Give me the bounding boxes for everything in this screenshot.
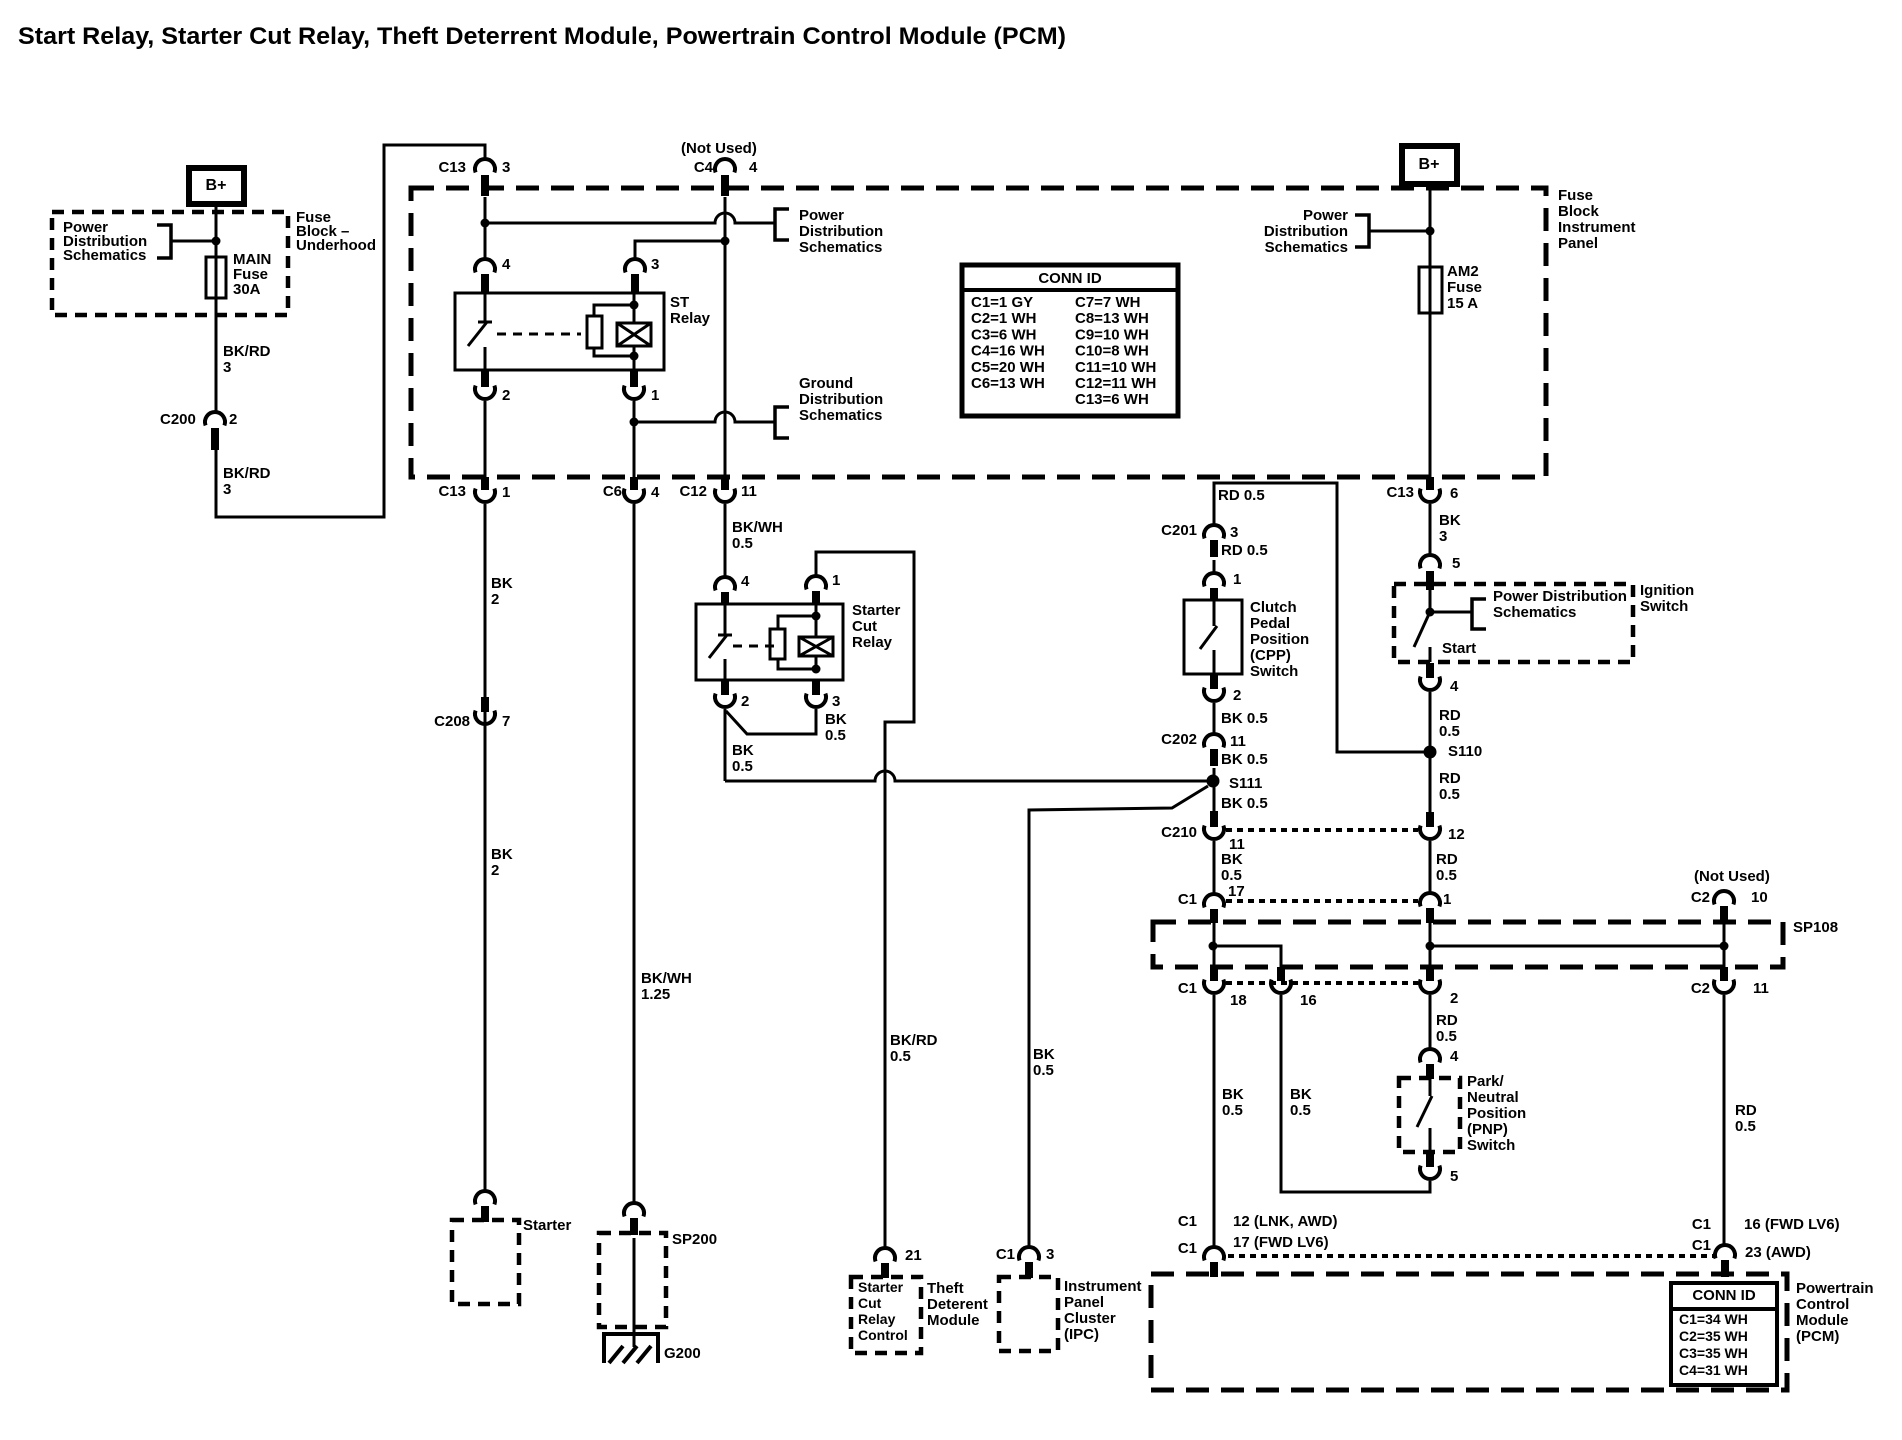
svg-text:2: 2	[229, 411, 237, 428]
svg-text:3: 3	[832, 693, 840, 710]
svg-text:0.5: 0.5	[825, 727, 846, 744]
svg-text:11: 11	[741, 483, 757, 500]
label BK 2 (upper)	[491, 575, 513, 608]
svg-text:11: 11	[1230, 733, 1246, 750]
wire C200 to C13 pin 3 (down, right, up, right)	[216, 145, 485, 517]
connector ignition pin 4	[1420, 663, 1459, 695]
svg-text:0.5: 0.5	[1436, 867, 1457, 884]
svg-text:Instrument: Instrument	[1558, 219, 1636, 236]
starter cut relay linkage dashed	[733, 645, 776, 648]
ground G200	[604, 1334, 701, 1363]
svg-text:Starter: Starter	[523, 1217, 572, 1234]
svg-text:0.5: 0.5	[890, 1048, 911, 1065]
svg-text:Schematics: Schematics	[799, 239, 882, 256]
junction SP108 right	[1720, 942, 1729, 951]
wire branch to ST relay pin 3	[635, 241, 725, 259]
label BK 0.5 (pin 2)	[732, 742, 754, 775]
svg-text:Panel: Panel	[1558, 235, 1598, 252]
svg-text:C12=11 WH: C12=11 WH	[1075, 375, 1156, 392]
wire RD 0.5 C2-11 to PCM	[1723, 995, 1726, 1245]
svg-text:5: 5	[1452, 555, 1460, 572]
wire relay pin 1 to theft deterrent module	[816, 552, 914, 1248]
wire B+ to fuse	[215, 204, 218, 258]
svg-text:4: 4	[502, 256, 511, 273]
connector PNP pin 4	[1420, 1048, 1459, 1079]
svg-text:0.5: 0.5	[1436, 1028, 1457, 1045]
svg-text:C13: C13	[438, 159, 466, 176]
wire BK/WH 1.25 C6-4 to SP200	[633, 504, 636, 1203]
label Starter Cut Relay Control (in box)	[858, 1279, 908, 1343]
svg-text:C3=6 WH: C3=6 WH	[971, 326, 1036, 343]
svg-text:RD: RD	[1436, 1012, 1458, 1029]
svg-text:3: 3	[1046, 1246, 1054, 1263]
svg-text:4: 4	[749, 159, 758, 176]
svg-text:G200: G200	[664, 1345, 701, 1362]
svg-text:C5=20 WH: C5=20 WH	[971, 359, 1045, 376]
label BK 3	[1439, 512, 1461, 545]
svg-text:Start: Start	[1442, 640, 1476, 657]
svg-text:C4: C4	[694, 159, 714, 176]
svg-text:21: 21	[905, 1247, 922, 1264]
ST relay box	[455, 293, 664, 370]
svg-text:Clutch: Clutch	[1250, 599, 1297, 616]
svg-text:BK 0.5: BK 0.5	[1221, 795, 1268, 812]
label Fuse Block - Underhood	[296, 209, 376, 254]
connector PNP pin 5	[1420, 1153, 1458, 1185]
connector C208 pin 7	[434, 697, 510, 730]
svg-text:0.5: 0.5	[1033, 1062, 1054, 1079]
svg-text:23 (AWD): 23 (AWD)	[1745, 1244, 1811, 1261]
svg-text:C200: C200	[160, 411, 196, 428]
svg-text:Starter: Starter	[858, 1279, 904, 1295]
connector C202 pin 11	[1161, 731, 1246, 766]
label BK/RD 3 (upper)	[223, 343, 271, 376]
svg-text:0.5: 0.5	[1221, 867, 1242, 884]
fuse MAIN 30A	[206, 257, 226, 298]
svg-text:0.5: 0.5	[732, 758, 753, 775]
connector SP200 terminal	[624, 1203, 644, 1235]
svg-text:Pedal: Pedal	[1250, 615, 1290, 632]
svg-text:BK: BK	[491, 846, 513, 863]
junction SP108 left	[1209, 942, 1218, 951]
svg-text:Control: Control	[1796, 1296, 1849, 1313]
ST relay coil	[587, 293, 651, 361]
starter cut relay pin 3	[806, 681, 840, 710]
svg-text:1: 1	[832, 572, 840, 589]
fuse block underhood dashed box	[52, 212, 288, 315]
svg-text:Block: Block	[1558, 203, 1600, 220]
connector C13 pin 3 (top)	[438, 159, 510, 196]
label BK 0.5 (pin 18 wire)	[1222, 1086, 1244, 1119]
label Power Distribution Schematics (ignition)	[1493, 588, 1627, 621]
connector C201 pin 3	[1161, 522, 1238, 557]
junction on B+ feed	[212, 237, 221, 246]
svg-text:C13: C13	[438, 483, 466, 500]
svg-text:Schematics: Schematics	[1493, 604, 1576, 621]
svg-text:1: 1	[502, 484, 510, 501]
dotted connector line PCM C1	[1228, 1254, 1715, 1258]
svg-text:C6=13 WH: C6=13 WH	[971, 375, 1045, 392]
ignition switch dashed box	[1394, 584, 1633, 662]
connector pin 1 (above SP108)	[1420, 891, 1451, 923]
svg-text:BK: BK	[1290, 1086, 1312, 1103]
svg-text:C7=7 WH: C7=7 WH	[1075, 294, 1140, 311]
ST relay pin 1 (lower)	[624, 371, 659, 477]
power distribution stub (top)	[775, 209, 789, 240]
svg-text:0.5: 0.5	[1439, 723, 1460, 740]
svg-text:Instrument: Instrument	[1064, 1278, 1142, 1295]
svg-text:C1: C1	[996, 1246, 1015, 1263]
svg-text:BK: BK	[1222, 1086, 1244, 1103]
svg-text:C208: C208	[434, 713, 470, 730]
svg-text:Cut: Cut	[858, 1295, 882, 1311]
svg-text:4: 4	[651, 484, 660, 501]
svg-text:Switch: Switch	[1250, 663, 1298, 680]
label BK 0.5 (below C202)	[1221, 751, 1268, 768]
title text	[18, 23, 1066, 50]
svg-text:Power: Power	[799, 207, 844, 224]
svg-text:Relay: Relay	[852, 634, 893, 651]
svg-text:4: 4	[1450, 1048, 1459, 1065]
svg-text:BK 0.5: BK 0.5	[1221, 751, 1268, 768]
svg-text:Panel: Panel	[1064, 1294, 1104, 1311]
svg-text:(Not Used): (Not Used)	[1694, 868, 1770, 885]
fuse AM2 15A	[1419, 267, 1442, 313]
SP108 bus wire	[1430, 945, 1724, 948]
wire to power distribution stub (hops C4 wire)	[485, 213, 775, 223]
label Start	[1442, 640, 1476, 657]
svg-text:C13=6 WH: C13=6 WH	[1075, 391, 1149, 408]
wire C210 to C1 pin 17	[1213, 841, 1216, 894]
wire RD 0.5 pin2 to PNP	[1429, 995, 1432, 1049]
label SP108	[1793, 919, 1838, 936]
svg-text:11: 11	[1753, 980, 1769, 997]
svg-text:Relay: Relay	[858, 1311, 896, 1327]
svg-text:BK: BK	[825, 711, 847, 728]
wire C2-10 through SP108	[1723, 922, 1726, 967]
svg-text:2: 2	[741, 693, 749, 710]
label RD 0.5 (below S110)	[1439, 770, 1461, 803]
connector C1 pin 17	[1178, 891, 1224, 923]
svg-text:C3=35 WH: C3=35 WH	[1679, 1345, 1748, 1361]
park neutral position switch dashed box	[1399, 1078, 1460, 1152]
label Power Distribution Schematics (top)	[799, 207, 883, 256]
svg-text:C1: C1	[1178, 1213, 1197, 1230]
connector C13 pin 1	[438, 477, 510, 502]
svg-text:(PCM): (PCM)	[1796, 1328, 1839, 1345]
svg-text:Underhood: Underhood	[296, 237, 376, 254]
label RD 0.5 (top)	[1218, 487, 1265, 504]
CPP switch internals	[1200, 600, 1217, 674]
connector C4 pin 4 (top, not used)	[694, 159, 758, 196]
svg-text:4: 4	[1450, 678, 1459, 695]
label ST Relay	[670, 294, 711, 327]
starter cut relay pin 1	[806, 572, 840, 604]
junction on C4 wire	[721, 237, 730, 246]
connector C12 pin 11	[679, 477, 756, 502]
starter cut relay coil	[770, 604, 833, 674]
svg-text:12 (LNK, AWD): 12 (LNK, AWD)	[1233, 1213, 1337, 1230]
connector C6 pin 4	[603, 477, 660, 502]
svg-text:Fuse: Fuse	[1447, 279, 1482, 296]
label Ground Distribution Schematics	[799, 375, 883, 424]
svg-text:BK: BK	[1033, 1046, 1055, 1063]
label BK 0.5 (pin 3)	[825, 711, 847, 744]
svg-text:Module: Module	[927, 1312, 980, 1329]
svg-text:RD: RD	[1436, 851, 1458, 868]
CPP switch box	[1184, 600, 1242, 674]
svg-text:(PNP): (PNP)	[1467, 1121, 1508, 1138]
svg-text:Distribution: Distribution	[1264, 223, 1348, 240]
label Ignition Switch	[1640, 582, 1694, 615]
svg-text:C1: C1	[1692, 1216, 1711, 1233]
connector C2 pin 11	[1691, 967, 1769, 997]
label BK/RD 3 (lower)	[223, 465, 271, 498]
svg-text:C11=10 WH: C11=10 WH	[1075, 359, 1156, 376]
ST relay pin 4 arc	[475, 256, 511, 293]
svg-text:15 A: 15 A	[1447, 295, 1478, 312]
svg-text:SP108: SP108	[1793, 919, 1838, 936]
svg-text:(IPC): (IPC)	[1064, 1326, 1099, 1343]
svg-text:Starter: Starter	[852, 602, 901, 619]
svg-text:Power Distribution: Power Distribution	[1493, 588, 1627, 605]
splice S111	[1207, 775, 1263, 793]
instrument panel cluster dashed box	[999, 1277, 1058, 1351]
connector pin 2 (below SP108)	[1420, 967, 1458, 1007]
label RD 0.5 (above PNP)	[1436, 1012, 1458, 1045]
connector C2 pin 10 (not used)	[1691, 889, 1768, 923]
splice S110	[1424, 743, 1483, 760]
connector CPP pin 2	[1204, 675, 1241, 704]
label BK 0.5 (pin 16 wire)	[1290, 1086, 1312, 1119]
svg-text:0.5: 0.5	[1439, 786, 1460, 803]
svg-text:BK 0.5: BK 0.5	[1221, 710, 1268, 727]
svg-text:Switch: Switch	[1467, 1137, 1515, 1154]
ST relay pin 3 arc	[625, 256, 659, 293]
junction ground distribution branch	[630, 418, 639, 427]
label Fuse Block Instrument Panel	[1558, 187, 1636, 252]
svg-text:C1: C1	[1178, 1240, 1197, 1257]
svg-text:10: 10	[1751, 889, 1768, 906]
wire B+ to AM2 fuse	[1429, 184, 1432, 267]
label (Not Used) C2 10	[1694, 868, 1770, 885]
powertrain control module dashed box	[1151, 1274, 1787, 1390]
svg-text:Ignition: Ignition	[1640, 582, 1694, 599]
svg-text:2: 2	[502, 387, 510, 404]
svg-text:BK/RD: BK/RD	[890, 1032, 938, 1049]
svg-text:30A: 30A	[233, 281, 261, 298]
svg-text:(Not Used): (Not Used)	[681, 140, 757, 157]
svg-text:CONN ID: CONN ID	[1038, 270, 1102, 287]
wire AM2 fuse down to C13-6	[1429, 313, 1432, 477]
splice pack SP108 dashed box	[1153, 922, 1783, 967]
connector pin 12 (below S110)	[1420, 812, 1465, 843]
svg-text:0.5: 0.5	[1290, 1102, 1311, 1119]
connector C200 pin 2	[160, 411, 237, 450]
svg-text:ST: ST	[670, 294, 689, 311]
svg-text:16: 16	[1300, 992, 1317, 1009]
svg-text:BK: BK	[491, 575, 513, 592]
svg-text:C201: C201	[1161, 522, 1197, 539]
wire C13-3 down to ST relay pin 4	[484, 197, 487, 259]
svg-text:12: 12	[1448, 826, 1465, 843]
svg-text:1: 1	[1443, 891, 1451, 908]
svg-text:B+: B+	[206, 177, 227, 194]
svg-text:B+: B+	[1419, 156, 1440, 173]
label RD 0.5 (C2-11 wire)	[1735, 1102, 1757, 1135]
wire C202 to S111	[1213, 768, 1216, 781]
svg-text:6: 6	[1450, 485, 1458, 502]
svg-text:17: 17	[1228, 883, 1245, 900]
junction SP108 mid	[1426, 942, 1435, 951]
starter cut relay pin 2	[715, 681, 749, 710]
svg-text:BK: BK	[732, 742, 754, 759]
wire RD 0.5 to S110	[1429, 692, 1432, 826]
wire C4 down through box	[724, 197, 727, 477]
svg-text:CONN ID: CONN ID	[1692, 1287, 1756, 1304]
label BK 0.5 (below CPP)	[1221, 710, 1268, 727]
svg-text:C210: C210	[1161, 824, 1197, 841]
connector C210 pin 11	[1161, 811, 1245, 853]
label Powertrain Control Module (PCM)	[1796, 1280, 1874, 1345]
svg-text:C202: C202	[1161, 731, 1197, 748]
svg-text:Powertrain: Powertrain	[1796, 1280, 1874, 1297]
svg-text:Neutral: Neutral	[1467, 1089, 1519, 1106]
svg-text:C8=13 WH: C8=13 WH	[1075, 310, 1149, 327]
svg-text:Start Relay, Starter Cut Relay: Start Relay, Starter Cut Relay, Theft De…	[18, 23, 1066, 50]
svg-text:(CPP): (CPP)	[1250, 647, 1291, 664]
svg-text:Power: Power	[1303, 207, 1348, 224]
svg-text:7: 7	[502, 713, 510, 730]
fuse block instrument panel dashed box	[411, 188, 1546, 477]
label BK 0.5 (below S111)	[1221, 795, 1268, 812]
svg-text:C1: C1	[1178, 980, 1197, 997]
ST relay pin 2 (lower)	[475, 356, 634, 477]
CONN ID table (fuse block)	[962, 265, 1178, 416]
svg-text:C2=1 WH: C2=1 WH	[971, 310, 1036, 327]
label BK 2 (lower)	[491, 846, 513, 879]
power distribution stub (right B+)	[1355, 215, 1430, 247]
svg-text:RD 0.5: RD 0.5	[1218, 487, 1265, 504]
svg-text:C2=35 WH: C2=35 WH	[1679, 1328, 1748, 1344]
wire BK 2 C13-1 to starter	[484, 504, 487, 1191]
label AM2 Fuse 15 A	[1447, 263, 1482, 312]
PNP switch internals	[1417, 1078, 1432, 1152]
label BK/WH 1.25	[641, 970, 692, 1003]
label BK/WH 0.5	[732, 519, 783, 552]
svg-text:BK/WH: BK/WH	[732, 519, 783, 536]
svg-text:Distribution: Distribution	[799, 391, 883, 408]
svg-text:RD 0.5: RD 0.5	[1221, 542, 1268, 559]
svg-text:C6: C6	[603, 483, 622, 500]
label Starter	[523, 1217, 572, 1234]
svg-text:Position: Position	[1250, 631, 1309, 648]
svg-text:C2: C2	[1691, 980, 1710, 997]
label RD 0.5 (above S110)	[1439, 707, 1461, 740]
starter cut relay pin 4	[715, 573, 750, 604]
svg-text:Park/: Park/	[1467, 1073, 1505, 1090]
svg-text:0.5: 0.5	[1735, 1118, 1756, 1135]
wire BK 3 to ignition switch	[1429, 504, 1432, 555]
wire RD 0.5 from C201 to S110 (up over down)	[1214, 483, 1424, 752]
svg-text:3: 3	[1230, 524, 1238, 541]
label BK/RD 0.5	[890, 1032, 938, 1065]
svg-text:3: 3	[223, 481, 231, 498]
label BK 0.5 17 (between C210 and C1)	[1221, 851, 1245, 900]
wire C1-17 through SP108	[1213, 922, 1216, 967]
label RD 0.5 (12 to 1)	[1436, 851, 1458, 884]
wire BK/WH 0.5 C12-11 to relay pin 4	[724, 504, 727, 577]
label RD 0.5 (below C201)	[1221, 542, 1268, 559]
label Power Distribution Schematics (left)	[63, 219, 147, 264]
svg-text:C2: C2	[1691, 889, 1710, 906]
label MAIN Fuse 30A	[233, 251, 271, 298]
ground distribution stub	[775, 407, 789, 438]
ignition switch internals	[1414, 590, 1486, 662]
svg-text:3: 3	[502, 159, 510, 176]
label (Not Used) C4	[681, 140, 757, 157]
starter dashed box	[452, 1220, 519, 1304]
svg-text:S111: S111	[1229, 775, 1262, 792]
connector C1 pin 18	[1178, 967, 1247, 1009]
svg-text:Ground: Ground	[799, 375, 853, 392]
svg-text:1.25: 1.25	[641, 986, 670, 1003]
svg-text:AM2: AM2	[1447, 263, 1479, 280]
svg-text:C13: C13	[1386, 484, 1414, 501]
connector theft deterrent pin 21	[875, 1247, 922, 1278]
wire pin1 through SP108	[1429, 922, 1432, 967]
wire SP200 to ground	[633, 1238, 636, 1347]
wire PNP pin 5 to pin 16 leg	[1281, 995, 1430, 1192]
svg-text:0.5: 0.5	[732, 535, 753, 552]
svg-text:Schematics: Schematics	[1265, 239, 1348, 256]
svg-text:C4=16 WH: C4=16 WH	[971, 343, 1045, 360]
power symbol B+ (left)	[189, 168, 244, 204]
svg-text:2: 2	[1450, 990, 1458, 1007]
junction below B+ right	[1426, 227, 1435, 236]
svg-text:BK: BK	[1221, 851, 1243, 868]
starter cut relay box	[696, 604, 843, 680]
wire S111 to IPC (diagonal)	[1029, 786, 1208, 1247]
svg-text:2: 2	[491, 591, 499, 608]
power distribution stub (left)	[157, 225, 216, 258]
svg-text:Schematics: Schematics	[63, 247, 146, 264]
ST relay switch	[468, 293, 492, 370]
connector PCM C1 right	[1692, 1216, 1840, 1277]
svg-text:5: 5	[1450, 1168, 1458, 1185]
power symbol B+ (right)	[1402, 146, 1457, 184]
svg-text:C4=31 WH: C4=31 WH	[1679, 1362, 1748, 1378]
label Power Distribution Schematics (right of B+)	[1264, 207, 1348, 256]
starter cut relay control dashed box	[851, 1277, 921, 1353]
connector C13 pin 6	[1386, 477, 1458, 502]
svg-text:17 (FWD LV6): 17 (FWD LV6)	[1233, 1234, 1329, 1251]
wire to ground distribution stub (hops C4 wire)	[634, 412, 775, 422]
CONN ID table (PCM)	[1671, 1283, 1777, 1385]
svg-text:Schematics: Schematics	[799, 407, 882, 424]
wire pin 2 down	[724, 709, 727, 781]
ST relay linkage dashed	[497, 333, 581, 336]
connector IPC C1 pin 3	[996, 1246, 1055, 1278]
svg-text:BK/WH: BK/WH	[641, 970, 692, 987]
svg-text:1: 1	[651, 387, 659, 404]
wire C201 to CPP pin 1	[1213, 560, 1216, 573]
label Clutch Pedal Position (CPP) Switch	[1250, 599, 1309, 680]
wire BK 0.5 relay pin 2 to S111	[725, 771, 1207, 781]
svg-text:4: 4	[741, 573, 750, 590]
svg-text:C10=8 WH: C10=8 WH	[1075, 343, 1149, 360]
svg-text:3: 3	[651, 256, 659, 273]
